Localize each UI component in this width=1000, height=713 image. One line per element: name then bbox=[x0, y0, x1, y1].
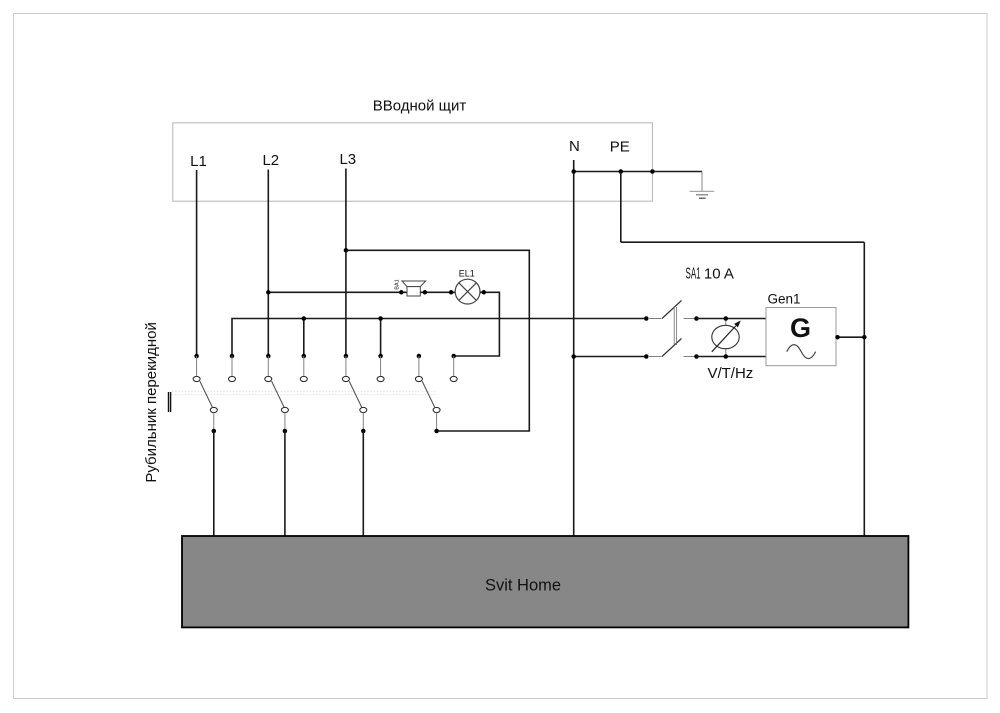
wire speaker to lamp bbox=[420, 291, 455, 293]
junction L2 / speaker branch bbox=[266, 290, 271, 295]
load box Svit Home bbox=[182, 536, 908, 627]
wire pole 1 common to load bbox=[213, 431, 215, 536]
speaker BA1 bbox=[395, 279, 426, 296]
svg-text:ВВодной щит: ВВодной щит bbox=[373, 98, 467, 115]
wire PE vertical bbox=[620, 172, 622, 243]
wire L3 branch loop to pole 4 common bbox=[346, 250, 529, 431]
junction bus / pole 3 right bbox=[378, 316, 383, 321]
wire pole 2 right contact to bus bbox=[303, 319, 305, 357]
wire N to SA1 bottom pole bbox=[574, 356, 647, 358]
wire pole 2 common to load bbox=[284, 431, 286, 536]
wire right vertical to load box bbox=[863, 242, 865, 536]
wire N vertical to load bbox=[573, 160, 575, 536]
wire PE horizontal to generator side bbox=[621, 241, 865, 243]
svg-text:10 A: 10 A bbox=[704, 266, 734, 283]
wire SA1 to Gen1 bottom bbox=[697, 356, 767, 358]
svg-text:SA1: SA1 bbox=[686, 265, 701, 283]
junction N / SA1 bottom wire bbox=[571, 354, 576, 359]
generator Gen1 bbox=[766, 292, 836, 366]
junction at panel edge on ground wire bbox=[650, 169, 655, 174]
wire N to ground horizontal bbox=[574, 171, 702, 173]
junction bus / pole 2 right bbox=[302, 316, 307, 321]
svg-text:Svit Home: Svit Home bbox=[485, 577, 561, 595]
ground bbox=[690, 191, 715, 198]
wire Gen1 output bbox=[836, 336, 864, 338]
junction dot at speaker output bbox=[423, 290, 428, 295]
wire ground lead bbox=[701, 172, 703, 192]
wire L2 vertical bbox=[267, 170, 269, 357]
changeover switch QS1 handle bbox=[169, 392, 171, 412]
svg-text:V/T/Hz: V/T/Hz bbox=[707, 365, 753, 382]
svg-text:L1: L1 bbox=[190, 153, 207, 170]
wire L2 branch to speaker bbox=[268, 291, 407, 293]
junction dot at lamp input bbox=[449, 290, 454, 295]
svg-text:EL1: EL1 bbox=[459, 269, 475, 279]
wire lamp output to switch pole 4 right contact bbox=[454, 292, 500, 356]
svg-text:G: G bbox=[790, 313, 811, 343]
changeover switch pole 3 bbox=[342, 354, 384, 434]
wire L1 vertical bbox=[196, 170, 198, 356]
meter PV1 V/T/Hz bbox=[712, 316, 741, 359]
switch SA1 top pole bbox=[644, 301, 699, 321]
wire L3 vertical bbox=[345, 169, 347, 357]
changeover switch pole 2 bbox=[265, 354, 308, 434]
lamp EL1 bbox=[455, 269, 480, 305]
junction dot at lamp output bbox=[482, 290, 487, 295]
junction Gen1 output / right vertical wire bbox=[862, 335, 867, 340]
input panel box "ВВодной щит" bbox=[173, 123, 653, 201]
svg-text:L2: L2 bbox=[262, 152, 279, 169]
svg-text:L3: L3 bbox=[339, 151, 356, 168]
wire SA1 to Gen1 top bbox=[697, 318, 767, 320]
junction dot at Gen1 output pin bbox=[835, 335, 840, 340]
changeover switch QS1 link bar bbox=[172, 392, 437, 395]
svg-text:N: N bbox=[569, 138, 580, 155]
svg-text:PE: PE bbox=[610, 139, 630, 156]
changeover switch pole 4 bbox=[415, 354, 457, 434]
svg-text:Рубильник перекидной: Рубильник перекидной bbox=[143, 322, 160, 482]
junction L3 / branch loop bbox=[344, 248, 349, 253]
changeover switch pole 1 bbox=[193, 354, 235, 434]
wire pole 3 common to load bbox=[362, 431, 364, 536]
wire generator bus bbox=[232, 319, 646, 357]
junction dot at speaker input bbox=[399, 290, 404, 295]
junction PE / ground wire bbox=[619, 169, 624, 174]
svg-text:Gen1: Gen1 bbox=[768, 292, 801, 307]
switch SA1 link bar bbox=[674, 307, 676, 345]
svg-text:BA1: BA1 bbox=[395, 279, 401, 289]
switch SA1 bottom pole bbox=[644, 339, 699, 359]
wire pole 3 right contact to bus bbox=[380, 319, 382, 357]
junction N / ground wire bbox=[571, 169, 576, 174]
